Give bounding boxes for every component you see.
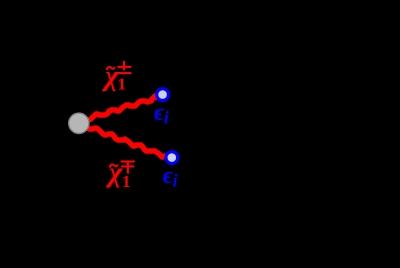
node: production blob (gray) (69, 113, 89, 133)
svg-text:1: 1 (118, 75, 127, 94)
svg-text:i: i (173, 170, 178, 190)
wire: lower chargino wavy propagator (88, 128, 164, 157)
label: epsilon_i (lower slepton) (163, 163, 178, 191)
label: chi~_1^-+ (lower chargino) (105, 157, 131, 192)
label: plus-minus superscript (upper) (117, 61, 132, 73)
svg-text:i: i (164, 108, 169, 128)
wire: upper chargino wavy propagator (88, 96, 157, 120)
svg-text:1: 1 (122, 172, 131, 191)
label: chi~_1^+- (upper chargino) (101, 60, 126, 94)
node: lower decay vertex (blue ring) (166, 152, 178, 164)
label: epsilon_i (upper slepton) (154, 100, 169, 128)
node: upper decay vertex (blue ring) (157, 89, 169, 101)
label: minus-plus superscript (lower) (121, 161, 135, 174)
glyph tilde over chi (upper) (107, 67, 115, 70)
glyph tilde over chi (lower) (110, 164, 118, 167)
